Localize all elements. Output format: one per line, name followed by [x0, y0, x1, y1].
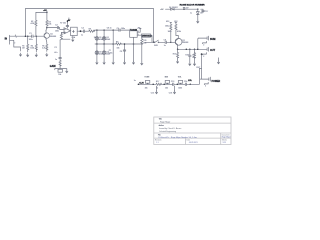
- svg-text:DEGRADE: DEGRADE: [142, 35, 153, 38]
- svg-text:470k: 470k: [31, 23, 35, 25]
- ground: [103, 61, 105, 64]
- svg-text:2: 2: [203, 56, 204, 58]
- wire: main +9V/bypass top rail: [25, 8, 153, 10]
- ground: [123, 61, 125, 64]
- wire: U2 ground leg: [133, 44, 135, 61]
- node: [103, 43, 105, 45]
- node: [96, 29, 98, 31]
- wire: Q1 collector to C3: [46, 28, 57, 31]
- wire: degrade line drop: [153, 9, 155, 43]
- wire: +9V bus over Q1: [36, 11, 47, 13]
- node: [197, 9, 198, 10]
- svg-text:D6: D6: [200, 13, 202, 15]
- IC U2: [130, 28, 141, 44]
- svg-text:C14: C14: [184, 81, 187, 83]
- svg-text:R7 10k: R7 10k: [60, 23, 66, 25]
- resistor R3 collector load: [46, 12, 52, 27]
- node: [80, 30, 82, 32]
- resistor R2 bias from rail: [31, 12, 37, 36]
- svg-text:10k: 10k: [117, 47, 120, 49]
- node: [177, 84, 179, 86]
- capacitor C3: [55, 25, 59, 33]
- svg-text:2: 2: [205, 86, 206, 88]
- IC box U1: [71, 27, 78, 39]
- capacitor C5 series: [117, 28, 125, 31]
- svg-text:10k: 10k: [143, 42, 146, 44]
- wire: input signal to Q1 base: [15, 35, 44, 37]
- svg-text:100k: 100k: [178, 88, 182, 90]
- svg-text:RAGE MAJOR NUMBER: RAGE MAJOR NUMBER: [180, 3, 205, 6]
- svg-text:Rage Major: Rage Major: [160, 122, 171, 124]
- potentiometer VR3: [165, 77, 170, 90]
- svg-text:TONE: TONE: [144, 77, 150, 79]
- node: [36, 35, 38, 37]
- potentiometer VR2 TONE: [144, 77, 150, 90]
- svg-text:100n: 100n: [29, 39, 33, 41]
- svg-text:10k: 10k: [48, 24, 51, 26]
- svg-text:C15: C15: [151, 92, 154, 94]
- svg-text:VOL: VOL: [178, 77, 182, 79]
- svg-text:1: 1: [16, 37, 17, 39]
- op-amp U1: [64, 28, 71, 34]
- svg-text:2N5088: 2N5088: [50, 36, 56, 38]
- svg-text:Title: Title: [159, 118, 162, 121]
- svg-text:Issued by Chuck D. Bones: Issued by Chuck D. Bones: [159, 128, 181, 130]
- svg-text:1/25: 1/25: [223, 142, 226, 144]
- svg-text:C17: C17: [205, 11, 208, 13]
- svg-text:+9V: +9V: [67, 20, 71, 22]
- ground: [189, 62, 191, 65]
- svg-text:R17: R17: [156, 81, 159, 83]
- capacitor C2 emitter bypass: [54, 47, 57, 54]
- ground: [132, 61, 134, 64]
- svg-text:10k: 10k: [58, 74, 61, 76]
- diode D4: [102, 44, 110, 61]
- ground: [27, 54, 29, 57]
- svg-text:C4: C4: [81, 27, 83, 29]
- diode D5 series: [169, 7, 178, 10]
- capacitor C14 series: [184, 81, 187, 86]
- svg-text:4148: 4148: [106, 39, 110, 41]
- node: [133, 43, 135, 45]
- svg-text:D5 1N5817: D5 1N5817: [169, 7, 178, 9]
- power feed R7 to op-amp: [60, 18, 71, 28]
- node: [189, 49, 191, 51]
- node: [186, 49, 188, 51]
- node: [46, 12, 48, 14]
- node: [190, 84, 192, 86]
- node Q1 collector: [46, 27, 48, 29]
- ground under op-amp: [72, 36, 74, 42]
- ground: [112, 61, 114, 64]
- svg-text:R16: R16: [185, 55, 188, 57]
- ground (jack sleeve): [217, 58, 219, 64]
- svg-text:C5: C5: [117, 28, 119, 30]
- wire: feedback loop: [60, 32, 70, 40]
- node: [153, 42, 155, 44]
- wire: clipping bottom rail: [95, 43, 142, 45]
- svg-text:8: 8: [138, 31, 139, 33]
- node: [112, 29, 114, 31]
- node: [103, 29, 105, 31]
- svg-text:MIX: MIX: [165, 77, 169, 79]
- ground: [197, 20, 199, 23]
- ground: [46, 53, 48, 56]
- svg-text:2.2k: 2.2k: [42, 47, 45, 49]
- wire: jack B sleeve to power jack: [202, 54, 203, 79]
- wire: C3 to op-amp input: [59, 28, 64, 30]
- capacitor C8 shunt: [120, 44, 126, 61]
- node: [138, 84, 140, 86]
- ground stub VR3: [151, 86, 158, 94]
- svg-text:100k: 100k: [30, 48, 34, 50]
- svg-text:100n: 100n: [108, 52, 112, 54]
- svg-text:SUM: SUM: [210, 38, 215, 41]
- svg-text:C13: C13: [171, 81, 174, 83]
- svg-text:Celestial Engineering: Celestial Engineering: [159, 130, 176, 133]
- capacitor C7 shunt: [108, 30, 113, 61]
- node: [124, 43, 126, 45]
- diode D2: [102, 30, 110, 44]
- potentiometer VR1 GAIN: [55, 59, 67, 76]
- wire: U1 output: [77, 30, 97, 31]
- capacitor C9: [164, 39, 171, 46]
- resistor Rg: [59, 60, 61, 66]
- svg-text:100n: 100n: [55, 31, 59, 33]
- svg-text:47u: 47u: [54, 52, 57, 54]
- ground: [35, 54, 37, 57]
- svg-text:R13: R13: [166, 21, 169, 23]
- svg-text:OUT: OUT: [210, 49, 216, 52]
- svg-text:10k: 10k: [165, 88, 168, 90]
- ground: [177, 60, 179, 63]
- svg-text:POWER: POWER: [212, 81, 221, 83]
- wire: to output jack A: [198, 38, 199, 49]
- svg-text:LVL: LVL: [188, 80, 193, 82]
- svg-text:2: 2: [14, 43, 15, 45]
- capacitor C10: [189, 49, 196, 62]
- svg-text:C1: C1: [29, 33, 31, 35]
- svg-text:R12: R12: [174, 21, 177, 23]
- svg-text:GAIN: GAIN: [50, 65, 56, 68]
- connector J3 jack B: [199, 47, 209, 58]
- svg-text:09-22-2021: 09-22-2021: [189, 142, 198, 144]
- svg-text:Rage Major: Rage Major: [222, 136, 231, 139]
- node: [96, 43, 98, 45]
- wire: gain network down: [59, 40, 61, 69]
- ground: [96, 61, 98, 64]
- resistor R12 bias: [174, 21, 181, 39]
- svg-text:Author: Author: [159, 124, 165, 127]
- node: [112, 43, 114, 45]
- svg-text:R9: R9: [116, 41, 118, 43]
- net label DEGRADE: [142, 34, 153, 42]
- svg-text:U1A: U1A: [72, 36, 76, 39]
- svg-text:5: 5: [138, 34, 139, 36]
- node: [177, 49, 179, 51]
- svg-text:SW1: SW1: [154, 45, 158, 47]
- svg-text:C6 1n: C6 1n: [107, 27, 112, 29]
- wire power input: [166, 8, 204, 10]
- svg-text:100n: 100n: [121, 28, 125, 30]
- diode D3: [95, 44, 103, 61]
- capacitor C1: [29, 33, 33, 41]
- ground (gain pot): [66, 70, 68, 73]
- svg-text:1u: 1u: [190, 12, 192, 14]
- svg-text:C8: C8: [120, 51, 122, 53]
- node: [27, 35, 29, 37]
- resistor R5 emitter: [42, 44, 48, 50]
- wire: tone chain: [138, 83, 190, 85]
- svg-text:1.1: 1.1: [156, 142, 158, 144]
- connector J4 POWER: [200, 77, 210, 88]
- svg-text:C16: C16: [169, 92, 172, 94]
- svg-text:R15: R15: [173, 54, 176, 56]
- node: [197, 49, 199, 51]
- svg-text:1M: 1M: [22, 48, 25, 50]
- svg-text:1u: 1u: [81, 34, 83, 36]
- svg-text:10k: 10k: [145, 88, 148, 90]
- resistor R16: [185, 49, 195, 62]
- svg-text:C3: C3: [55, 25, 57, 27]
- svg-text:+9V: +9V: [160, 9, 164, 11]
- connector J2 jack A: [199, 36, 209, 47]
- wire: tone chain up right: [190, 69, 201, 85]
- node: [25, 35, 27, 37]
- wire: base: [171, 41, 176, 43]
- resistor R11: [141, 39, 147, 45]
- resistor R9 series: [116, 41, 122, 49]
- potentiometer VR4: [178, 77, 183, 90]
- wire: Q1 emitter network: [45, 39, 48, 51]
- switch SW1: [145, 40, 166, 47]
- svg-text:D:\Users\Ch... Rage Major Num: D:\Users\Ch... Rage Major Number 1-4_1.4…: [159, 136, 197, 139]
- wire: clipping top rail: [97, 29, 130, 31]
- svg-text:IN: IN: [5, 38, 8, 41]
- wire: emitter rail: [178, 45, 199, 49]
- connector J1 input jack: [10, 35, 17, 45]
- zener D6: [196, 9, 202, 20]
- svg-text:100k: 100k: [168, 31, 172, 33]
- resistor R8 series: [89, 28, 96, 38]
- capacitor C4g: [59, 58, 62, 59]
- ground: [193, 62, 195, 65]
- wire: left vertical from input node up to rail: [24, 9, 26, 37]
- svg-text:1u: 1u: [55, 59, 57, 61]
- title block: [154, 117, 231, 145]
- node: [163, 84, 165, 86]
- resistor R4 to ground: [30, 36, 37, 52]
- svg-text:C9: C9: [164, 39, 166, 41]
- svg-text:470k: 470k: [177, 31, 181, 33]
- svg-text:R8: R8: [89, 28, 91, 30]
- transistor Q2: [175, 38, 188, 45]
- node: [152, 84, 154, 86]
- svg-text:C2: C2: [54, 47, 56, 49]
- svg-text:2N5088: 2N5088: [182, 42, 188, 44]
- resistor R6 feedback: [60, 34, 62, 40]
- capacitor C17: [202, 9, 208, 13]
- diode D1: [95, 30, 103, 44]
- ground stub VR4: [169, 86, 176, 94]
- capacitor C13 series: [171, 81, 174, 86]
- node: [194, 49, 196, 51]
- resistor R1 to ground: [22, 36, 29, 52]
- ground (input): [19, 53, 21, 56]
- capacitor C4: [81, 27, 85, 36]
- wire: U2 pin to R11: [140, 30, 142, 62]
- transistor Q1: [44, 30, 56, 39]
- svg-text:2: 2: [203, 45, 204, 47]
- wire: jack sleeve to ground: [14, 41, 21, 51]
- resistor R13 bias: [165, 21, 172, 43]
- resistor R17 series: [156, 81, 162, 90]
- power flag at U2: [137, 28, 141, 30]
- svg-text:100u: 100u: [165, 26, 169, 28]
- node: [201, 53, 203, 55]
- ground: [141, 62, 143, 65]
- svg-text:1n: 1n: [134, 80, 136, 82]
- power flag +9V: [183, 8, 189, 10]
- power flag +9V: [43, 10, 47, 13]
- node: [170, 42, 172, 44]
- svg-text:1u: 1u: [164, 45, 166, 47]
- resistor R15 emitter: [173, 49, 179, 60]
